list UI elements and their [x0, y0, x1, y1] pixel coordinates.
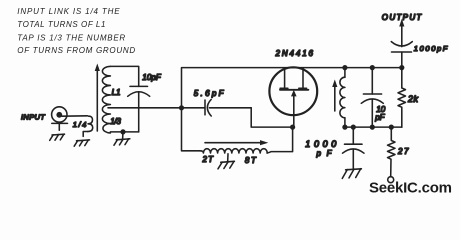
svg-text:2N4416: 2N4416	[275, 49, 314, 58]
svg-text:SeekIC.com: SeekIC.com	[369, 180, 452, 197]
wire: 5.6pF right plate to corner bend	[210, 107, 252, 109]
capacitor C5 1000pF output coupling	[391, 42, 412, 52]
wire: bend down and right to gate junction	[251, 108, 292, 127]
svg-text:1000: 1000	[305, 139, 336, 149]
wire: L1 bottom to 10pF branch	[110, 131, 138, 133]
svg-text:pF: pF	[316, 149, 333, 158]
inductor L1 winding	[102, 66, 110, 133]
svg-text:27: 27	[397, 147, 409, 156]
svg-text:5.6pF: 5.6pF	[194, 89, 225, 98]
arrow: L1 slug-tuning arrow	[95, 64, 100, 132]
note: winding instructions text block	[17, 7, 135, 55]
ground: below input jack	[50, 134, 65, 140]
svg-text:L1: L1	[112, 88, 121, 97]
wire: tank coil bottom lead	[344, 118, 346, 127]
svg-text:2T: 2T	[202, 155, 215, 164]
ground: 2T/8T coil tap	[218, 154, 234, 169]
node A: junction of tap wire, riser and 5.6pF	[179, 105, 184, 110]
wire: link bottom lead	[83, 132, 87, 137]
svg-text:INPUT: INPUT	[21, 112, 46, 121]
wire: tank coil top lead	[344, 68, 346, 78]
wire: output branch below C5	[401, 52, 403, 68]
wire: coil right end up to gate junction	[267, 127, 293, 153]
wire: tap wire from L1 tap to 5.6pF left plate	[108, 107, 205, 109]
ground: below input link	[74, 140, 89, 146]
inductor: feedback coil 2T/8T	[200, 149, 267, 153]
node C: gate junction dot	[290, 125, 295, 130]
node I: rail dot at 10pF	[370, 65, 375, 70]
inductor L2: output tank coil	[340, 77, 345, 118]
connector J1: coaxial input jack	[52, 107, 68, 130]
node G: 27 ohm tap dot	[389, 125, 394, 130]
capacitor C2 5.6pF gate coupling	[205, 99, 211, 116]
node J: rail dot at output/2k	[399, 65, 404, 70]
transistor Q1 2N4416 JFET	[269, 67, 317, 127]
svg-text:2k: 2k	[407, 94, 419, 104]
wire: jack center pin to input link	[62, 115, 88, 117]
terminal: open post below R2	[388, 177, 394, 183]
resistor R2 27 ohm source	[388, 127, 396, 177]
svg-text:10pF: 10pF	[142, 73, 162, 82]
svg-text:OF TURNS FROM GROUND: OF TURNS FROM GROUND	[17, 46, 135, 55]
svg-text:8T: 8T	[245, 156, 257, 165]
svg-text:INPUT LINK IS 1/4 THE: INPUT LINK IS 1/4 THE	[17, 7, 120, 16]
node E: 1000pF bypass tap dot	[351, 125, 356, 130]
svg-text:1000pF: 1000pF	[414, 44, 448, 53]
node F: 10pF bottom dot	[370, 125, 375, 130]
inductor: input link winding (1/4 of L1 turns)	[88, 116, 93, 131]
arrow: L2 slug-tuning arrow	[332, 80, 337, 112]
svg-text:TAP IS 1/3 THE NUMBER: TAP IS 1/3 THE NUMBER	[17, 33, 125, 42]
capacitor C4 1000pF bypass	[343, 127, 365, 168]
capacitor C3 10pF tank	[361, 68, 383, 128]
ground: below C4	[342, 169, 361, 179]
svg-text:1/4: 1/4	[73, 120, 87, 129]
wire: output tank bottom bus	[345, 126, 402, 128]
wire: L1 top to 10pF branch corner	[110, 66, 138, 86]
svg-text:pF: pF	[374, 113, 385, 122]
svg-text:TOTAL TURNS OF L1: TOTAL TURNS OF L1	[17, 20, 105, 29]
resistor R1 2k drain load	[398, 68, 406, 128]
capacitor C1 10pF across L1	[128, 86, 150, 131]
arrow: output lead arrow	[399, 19, 404, 47]
arrow: coupling arrow over 2T/8T coil	[205, 140, 268, 145]
svg-text:1/3: 1/3	[110, 117, 121, 126]
node B: L1 cold end ground tap dot	[120, 129, 125, 134]
node H: rail dot at tank coil	[342, 65, 347, 70]
wire: drain rail from left riser corner to output junction, with left riser down to 2T coil lead	[182, 68, 402, 151]
svg-text:OUTPUT: OUTPUT	[382, 13, 423, 22]
ground: below L1 cold end	[114, 132, 130, 145]
node D: tank coil bottom dot	[342, 125, 347, 130]
